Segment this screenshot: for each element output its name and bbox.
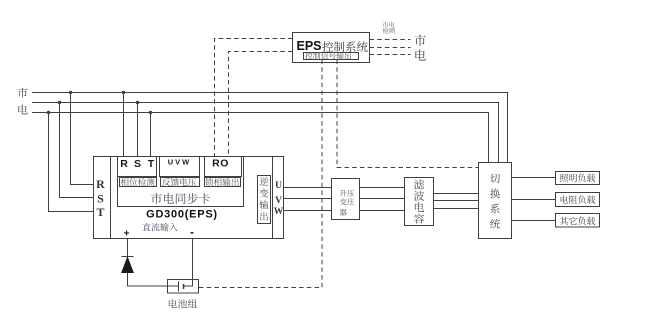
wire tap L1 to sync card R bbox=[123, 93, 125, 157]
wire tap L2 to sync card S bbox=[137, 103, 139, 157]
wire U transformer to filter bbox=[360, 187, 405, 189]
junction dot L2 bbox=[58, 101, 61, 104]
wire switch to resistive load bbox=[512, 199, 556, 201]
junction dot L1-R bbox=[122, 91, 125, 94]
svg-text:W: W bbox=[274, 207, 284, 217]
svg-text:+: + bbox=[124, 229, 130, 240]
sync card terminal box RO bbox=[205, 157, 242, 177]
switching system box 切换系统 bbox=[479, 163, 512, 239]
label 直流输入 bbox=[142, 223, 177, 231]
wire + terminal to diode bbox=[127, 239, 129, 258]
wire V filter to switch bbox=[434, 200, 479, 202]
wire tap L3 to GD300 terminal T bbox=[49, 113, 94, 212]
inverter output box 逆变输出 bbox=[258, 176, 271, 224]
svg-text:U: U bbox=[275, 181, 282, 191]
junction dot L3 bbox=[47, 111, 50, 114]
wire W phase GD300 to transformer bbox=[284, 210, 332, 212]
svg-text:S: S bbox=[134, 158, 141, 170]
junction dot L3-T bbox=[149, 111, 152, 114]
wire tap L3 to sync card T bbox=[150, 113, 152, 157]
function box 相位检测 bbox=[120, 178, 157, 187]
label mains 市电 (left) bbox=[17, 88, 27, 115]
svg-text:UVW: UVW bbox=[168, 158, 192, 167]
load box 其它负载 bbox=[556, 214, 600, 228]
inverter unit GD300(EPS) outer box bbox=[94, 157, 284, 239]
svg-text:S: S bbox=[97, 192, 104, 206]
filter capacitor box 滤波电容 bbox=[405, 178, 434, 226]
wire W transformer to filter bbox=[360, 210, 405, 212]
battery box 电池组 bbox=[168, 280, 199, 294]
sync card 市电同步卡 box bbox=[118, 157, 244, 207]
net mains L2 (S phase) wire bbox=[32, 103, 499, 163]
label 市电 (top right) bbox=[414, 35, 426, 61]
wire tap L2 to GD300 terminal S bbox=[60, 103, 94, 198]
sync card terminal box U V W bbox=[160, 157, 200, 177]
junction dot L1 bbox=[69, 91, 72, 94]
dashed mains-detect wire 3 bbox=[370, 54, 411, 56]
wire W filter to switch bbox=[434, 208, 479, 210]
dashed control wire signal-output to battery bbox=[199, 60, 323, 288]
wire U phase GD300 to transformer bbox=[284, 187, 332, 189]
load box 电阻负载 bbox=[556, 193, 600, 207]
svg-text:GD300(EPS): GD300(EPS) bbox=[146, 209, 218, 221]
EPS control system box EPS控制系统 bbox=[293, 33, 370, 63]
wire V transformer to filter bbox=[360, 198, 405, 200]
input terminal column R S T bbox=[110, 157, 112, 239]
dashed control wire signal-output to switch system bbox=[337, 60, 479, 168]
label 市电检测 (small) bbox=[383, 22, 395, 28]
net mains L3 (T phase) wire bbox=[32, 113, 489, 163]
dashed control wire EPS to RO (1) bbox=[215, 39, 293, 157]
load box 照明负载 bbox=[556, 172, 600, 185]
function box 锁相输出 bbox=[205, 178, 241, 187]
dashed mains-detect wire 1 bbox=[370, 39, 411, 41]
wire V phase GD300 to transformer bbox=[284, 198, 332, 200]
svg-text:T: T bbox=[96, 205, 104, 219]
svg-text:T: T bbox=[148, 158, 155, 170]
label 市电同步卡 bbox=[151, 193, 210, 204]
wire U filter to switch bbox=[434, 193, 479, 195]
wire switch to other load bbox=[512, 220, 556, 222]
junction dot L2-S bbox=[136, 101, 139, 104]
step-up transformer box 升压变压器 bbox=[332, 179, 360, 220]
wire diode to battery bbox=[128, 273, 179, 287]
control signal output box 控制信号输出 bbox=[304, 53, 359, 60]
svg-text:R: R bbox=[120, 158, 128, 170]
label 电池组 bbox=[169, 299, 197, 308]
sync card terminal box R S T bbox=[118, 157, 157, 177]
output terminal column U V W bbox=[272, 157, 274, 239]
function box 反馈电压 bbox=[161, 178, 200, 187]
net mains L1 (R phase) wire bbox=[32, 93, 508, 163]
svg-text:-: - bbox=[190, 225, 194, 239]
dashed control wire EPS to RO (2) bbox=[229, 52, 293, 157]
wire tap L1 to GD300 terminal R bbox=[71, 93, 94, 185]
wire - terminal to battery cell bbox=[184, 239, 193, 287]
svg-text:V: V bbox=[275, 196, 282, 206]
dashed mains-detect wire 2 bbox=[370, 47, 411, 49]
diode D1 (charging) bbox=[122, 256, 134, 258]
svg-text:RO: RO bbox=[212, 158, 229, 170]
battery cell symbol bbox=[178, 282, 180, 292]
svg-text:R: R bbox=[96, 177, 105, 191]
wire switch to lighting load bbox=[512, 177, 556, 179]
svg-text:EPS: EPS bbox=[297, 39, 322, 53]
